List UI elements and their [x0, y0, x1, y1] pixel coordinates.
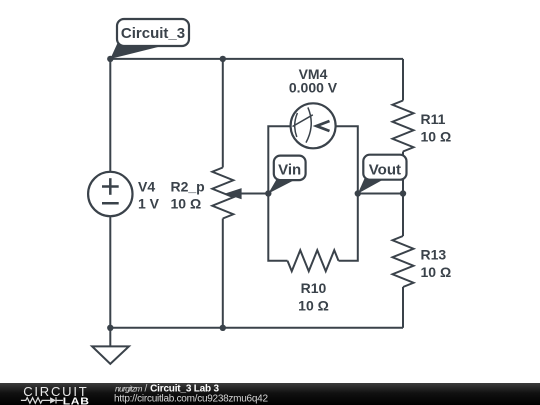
wire Vin down to R10 [268, 194, 287, 261]
svg-text:Vout: Vout [369, 161, 401, 178]
svg-text:10 Ω: 10 Ω [421, 129, 452, 145]
svg-text:R13: R13 [421, 247, 447, 263]
label R11 value [421, 111, 452, 145]
node R2_p top [220, 56, 226, 62]
wire right rail upper [402, 59, 404, 101]
wire R10 to Vout [339, 194, 358, 261]
svg-text:0.000 V: 0.000 V [289, 80, 338, 96]
logo squiggle resistor+diode [21, 397, 63, 403]
wire left rail upper [109, 59, 111, 172]
svg-text:10 Ω: 10 Ω [298, 298, 329, 314]
resistor R13 [393, 236, 414, 287]
svg-text:http://circuitlab.com/cu9238zm: http://circuitlab.com/cu9238zmu6q42 [114, 394, 268, 405]
label R13 value [421, 247, 452, 281]
node top-left [107, 56, 113, 62]
node Vin [265, 190, 271, 196]
label V4 value [138, 179, 160, 212]
svg-text:Vin: Vin [278, 161, 301, 178]
node Vout [355, 190, 361, 196]
label R2_p value [171, 179, 205, 212]
resistor R10 [288, 250, 339, 271]
label R10 value [298, 280, 329, 314]
flag Vin [268, 156, 305, 194]
wire right rail lower [402, 287, 404, 328]
svg-text:LAB: LAB [63, 396, 90, 405]
node right rail [400, 190, 406, 196]
wire voltmeter left lead [268, 126, 290, 193]
label VM4 value [289, 66, 338, 96]
wire top rail [110, 58, 403, 60]
wire right rail mid [402, 152, 404, 237]
footer bar [0, 383, 540, 405]
svg-text:R2_p: R2_p [171, 179, 205, 195]
svg-text:V4: V4 [138, 179, 155, 195]
voltmeter VM4 [291, 103, 336, 148]
wire bottom rail [110, 327, 403, 329]
potentiometer R2_p [212, 59, 233, 328]
ground [92, 328, 129, 364]
svg-text:R10: R10 [301, 280, 327, 296]
resistor R11 [393, 101, 414, 152]
svg-text:1 V: 1 V [138, 196, 160, 212]
svg-text:Circuit_3: Circuit_3 [121, 25, 185, 42]
svg-text:10 Ω: 10 Ω [171, 196, 202, 212]
svg-text:10 Ω: 10 Ω [421, 264, 452, 280]
wire voltmeter right lead [336, 126, 358, 193]
flag Circuit_3 [110, 19, 189, 59]
wiper arrow R2_p [225, 188, 242, 199]
wire Vout to right rail [358, 193, 403, 195]
voltmeter needle pointer [317, 121, 330, 131]
node ground [107, 325, 113, 331]
flag Vout [358, 155, 407, 194]
svg-text:R11: R11 [421, 111, 446, 127]
wire wiper to Vin [241, 193, 269, 195]
voltage source V4 [88, 172, 132, 216]
wire left rail lower [109, 216, 111, 328]
node R2_p bottom [220, 325, 226, 331]
